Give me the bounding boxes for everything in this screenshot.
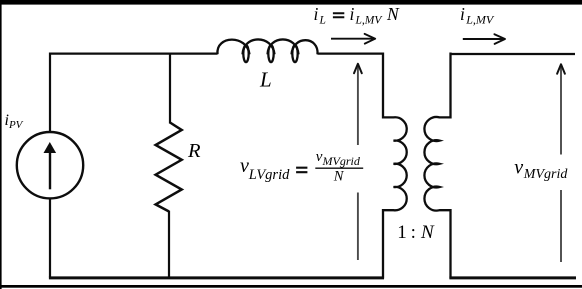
svg-text:v: v xyxy=(514,157,523,179)
svg-text:N: N xyxy=(333,169,345,185)
svg-text:R: R xyxy=(187,140,201,162)
svg-text:L,MV: L,MV xyxy=(355,15,384,27)
svg-text:N: N xyxy=(420,222,435,243)
svg-text::: : xyxy=(411,222,416,243)
svg-text:i: i xyxy=(350,4,355,24)
wire: bottom horizontal (right loop) xyxy=(449,276,576,279)
wire: resistor branch bottom xyxy=(168,211,170,279)
transformer T1 secondary coil xyxy=(424,53,450,279)
wire: bottom horizontal (left loop) xyxy=(49,276,384,279)
svg-text:L: L xyxy=(319,15,326,27)
label v_LVgrid = v_MVgrid / N xyxy=(240,149,363,184)
current source I1 (i_PV) xyxy=(17,132,83,198)
wire: resistor branch top xyxy=(169,53,171,124)
voltage arrow v_MVgrid xyxy=(557,64,565,262)
resistor R xyxy=(156,123,182,212)
inductor L xyxy=(217,39,317,62)
svg-text:L,MV: L,MV xyxy=(465,13,495,27)
wire: left vertical bottom xyxy=(49,198,51,278)
label i_L = i_L,MV N xyxy=(314,4,401,27)
voltage arrow v_LVgrid xyxy=(354,64,362,260)
svg-text:i: i xyxy=(314,4,319,24)
wire: top-left horizontal with left corner xyxy=(50,54,218,132)
svg-text:MVgrid: MVgrid xyxy=(523,167,569,182)
transformer T1 primary coil xyxy=(383,53,407,279)
svg-text:L: L xyxy=(259,68,272,92)
svg-text:v: v xyxy=(240,155,249,177)
label 1 : N xyxy=(397,222,435,243)
svg-text:N: N xyxy=(386,4,400,24)
svg-text:LVgrid: LVgrid xyxy=(248,167,290,183)
svg-text:MVgrid: MVgrid xyxy=(322,154,361,168)
svg-text:1: 1 xyxy=(397,222,407,243)
svg-text:i: i xyxy=(460,4,465,24)
wire: inductor to transformer primary xyxy=(318,52,383,54)
current arrow i_L xyxy=(331,34,375,44)
current arrow i_L,MV xyxy=(463,34,505,44)
label i_L,MV xyxy=(460,4,495,27)
wire: top-right horizontal xyxy=(451,53,576,55)
label v_MVgrid xyxy=(514,157,568,182)
